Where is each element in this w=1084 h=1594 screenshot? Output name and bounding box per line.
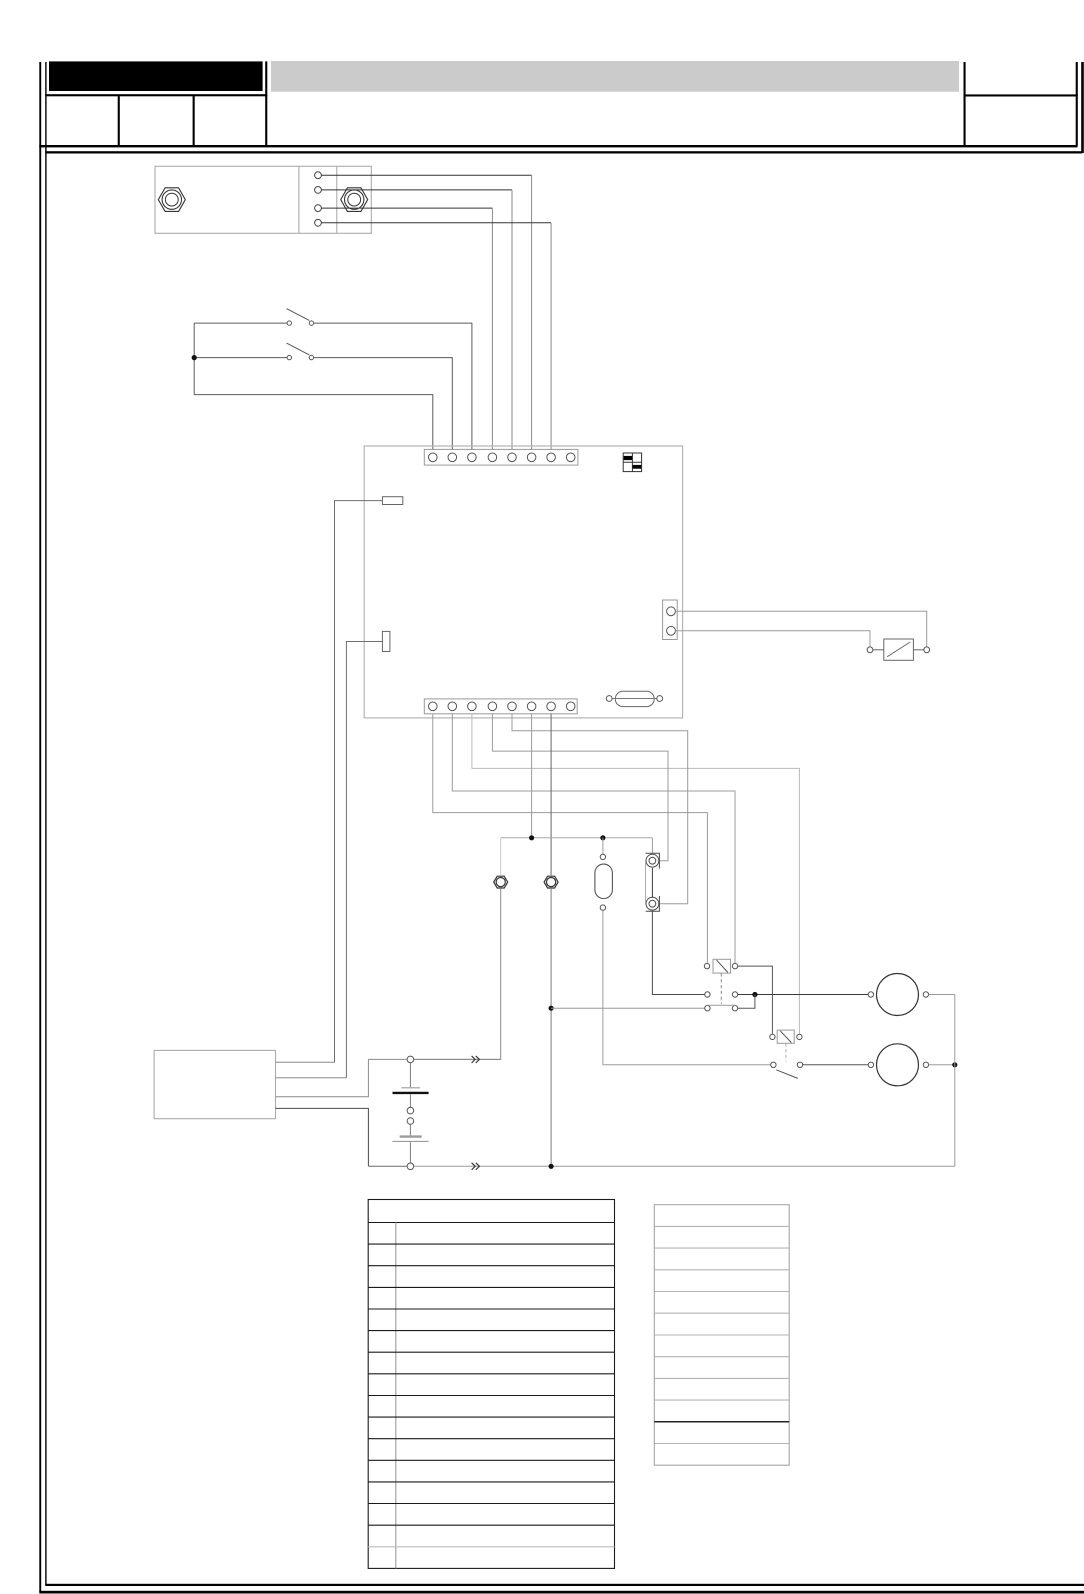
battery GB1 terminal positive — [407, 1056, 414, 1063]
K1 contact row2 right — [732, 1006, 737, 1011]
wire J1 pin1 to terminal 6 — [321, 174, 531, 176]
wire switch common vertical — [193, 323, 195, 395]
wire switch common to terminal 1 — [194, 395, 433, 450]
wire vertical to terminal 5 — [511, 190, 513, 450]
battery cell1 plate short — [393, 1092, 429, 1094]
battery cell2 link — [409, 1142, 411, 1163]
wire J2 pin A to diode right — [675, 611, 926, 647]
K1 contact row2 left — [705, 1006, 710, 1011]
wire bus to X1 — [500, 838, 502, 876]
wire to K1 contact row2 left — [551, 1007, 705, 1009]
terminal bottom 7 — [547, 702, 556, 711]
wire battery negative left — [368, 1165, 407, 1167]
wire X2 to ground rail — [550, 889, 552, 1166]
legend table right — [654, 1205, 789, 1466]
wire charger output 1 — [276, 1061, 335, 1063]
wire J2 pin B to diode left — [675, 631, 870, 647]
terminal top 7 — [547, 453, 556, 462]
DB connector on U1 bottom — [613, 691, 657, 706]
terminal top 2 — [448, 453, 457, 462]
battery mid terminal upper — [407, 1107, 414, 1114]
switch S2 — [287, 343, 314, 360]
terminal top 8 — [566, 453, 575, 462]
wire charger output 2 — [276, 1077, 347, 1079]
K1 contact row2 lever — [707, 1004, 736, 1006]
wire M1 to right drop — [929, 994, 955, 996]
battery GB1 terminal negative — [407, 1163, 414, 1170]
terminal bottom 1 — [429, 702, 438, 711]
terminal bottom 5 — [508, 702, 517, 711]
wire terminal bottom 4 to jack top — [492, 714, 668, 861]
wire S1 left — [194, 322, 287, 324]
X3 screw bottom — [600, 905, 605, 910]
K1 coil terminal left — [704, 963, 709, 968]
J1 pin 3 — [315, 205, 322, 212]
junction switch common — [192, 355, 197, 360]
ground rail — [414, 1165, 955, 1167]
wire battery positive left — [368, 1058, 407, 1060]
wire J1 pin3 to terminal 4 — [321, 207, 492, 209]
node diode left — [867, 647, 873, 653]
relay K2 coil — [777, 1030, 794, 1043]
wire battery positive right — [414, 1058, 501, 1060]
terminal strip bottom — [424, 699, 577, 714]
DB connector screw left — [606, 696, 612, 702]
wire J1 pin4 to terminal 7 — [321, 222, 551, 224]
wire terminal bottom 1 to K1 coil left — [433, 714, 708, 964]
terminal bottom 8 — [566, 702, 575, 711]
jumper icon U1 — [623, 453, 641, 472]
K1 contact row1 left — [705, 992, 710, 997]
bus wire — [501, 837, 653, 839]
connector J2 on U1 right — [663, 600, 678, 640]
battery cell1 plate long — [401, 1087, 420, 1089]
wire X4 to K1 contact row1 left — [652, 911, 704, 995]
wire S3 to motor M2 — [803, 1064, 868, 1066]
wire M2 to right drop — [929, 1064, 955, 1066]
wire right drop to ground rail — [954, 995, 956, 1167]
node diode right — [924, 647, 930, 653]
J1 pin 1 — [315, 172, 322, 179]
wire S2 left — [194, 357, 287, 359]
wire K1 row1 to motor M1 — [738, 994, 869, 996]
wire CN1 to charger — [346, 642, 382, 1078]
K2 coil terminal right — [797, 1034, 802, 1039]
junction X2 chain to K1 — [549, 1006, 554, 1011]
terminal strip top — [424, 449, 578, 465]
battery cell2 plate long — [400, 1135, 422, 1137]
connector block J1 — [155, 166, 371, 233]
wire charger output 4 — [276, 1108, 369, 1166]
terminal bottom 2 — [448, 702, 457, 711]
wire terminal bottom 7 to X2 — [550, 714, 552, 876]
wire K1 coil to K2 coil — [738, 966, 773, 1034]
terminal top 1 — [429, 453, 438, 462]
J2 pin B — [667, 626, 676, 635]
K1 contact row1 right — [732, 992, 737, 997]
J1 pin 4 — [315, 219, 322, 226]
K2 coil terminal left — [770, 1034, 775, 1039]
inline connector positive — [472, 1056, 480, 1063]
X4 body center bar — [651, 868, 653, 897]
wire X1 to battery positive — [414, 889, 501, 1060]
controller U1 — [364, 446, 682, 718]
wire bus to DB9 — [602, 838, 604, 855]
junction K1 output — [752, 992, 757, 997]
hex connector X2 — [544, 876, 558, 888]
battery mid link lower — [409, 1124, 411, 1135]
legend table left — [368, 1200, 614, 1569]
switch S3 contact left — [771, 1062, 776, 1067]
diode D1 — [873, 639, 924, 660]
charger A1 — [154, 1050, 275, 1118]
terminal bottom 4 — [488, 702, 497, 711]
wire bus to jack top — [651, 838, 653, 854]
DB connector screw right — [657, 696, 663, 702]
J2 pin A — [667, 607, 676, 616]
K1 coil terminal right — [732, 963, 737, 968]
hex connector X1 — [494, 876, 508, 888]
connector CN1 on U1 left — [382, 631, 390, 651]
M1 terminal left — [868, 992, 873, 997]
battery cell2 plate short — [393, 1140, 429, 1142]
motor M2 — [877, 1044, 919, 1086]
switch S1 — [287, 309, 314, 326]
wire J1 pin2 to terminal 5 — [321, 189, 512, 191]
wire vertical to terminal 4 — [491, 208, 493, 450]
wire charger output 3 — [276, 1059, 369, 1096]
M1 terminal right — [923, 992, 928, 997]
hex nut on J1 right — [341, 188, 368, 212]
wire vertical to terminal 7 — [550, 223, 552, 450]
motor M1 — [877, 974, 919, 1016]
battery mid link upper — [409, 1094, 411, 1107]
junction motors right — [952, 1062, 957, 1067]
junction bus-DB9 — [600, 835, 605, 840]
wire terminal bottom 5 to jack bottom — [512, 714, 688, 904]
hex nut on J1 left — [158, 188, 185, 212]
relay K1 coil — [713, 959, 731, 973]
J1 pin 2 — [315, 187, 322, 194]
X3 screw top — [600, 854, 605, 859]
jack connector X4 top — [646, 853, 660, 868]
wire K1 row2 right link — [738, 995, 755, 1009]
X4 body left bar — [645, 861, 647, 904]
M2 terminal right — [923, 1062, 928, 1067]
junction bus-terminal6 — [529, 835, 534, 840]
wire F1 to charger — [335, 501, 383, 1063]
battery mid terminal lower — [407, 1118, 414, 1125]
switch S3 lever — [776, 1070, 798, 1079]
jack connector X4 bottom — [646, 896, 660, 911]
terminal bottom 3 — [468, 702, 477, 711]
wire terminal bottom 2 to K1 coil right — [452, 714, 735, 964]
fuse F1 on U1 left — [382, 497, 402, 505]
terminal top 6 — [527, 453, 536, 462]
terminal top 4 — [488, 453, 497, 462]
wire X3 to switch S3 — [603, 910, 771, 1065]
junction ground rail X2 — [549, 1164, 554, 1169]
terminal top 5 — [508, 453, 517, 462]
inline connector negative — [472, 1163, 480, 1170]
K2 actuator dashed — [785, 1043, 787, 1062]
K1 actuator dashed — [720, 973, 722, 1003]
battery cell1 link — [409, 1063, 411, 1087]
wire S2 right to terminal 2 — [314, 358, 453, 450]
wire S1 right to terminal 3 — [314, 323, 472, 450]
terminal top 3 — [468, 453, 477, 462]
wire terminal bottom 3 to K2 coil right — [472, 714, 800, 1034]
terminal bottom 6 — [527, 702, 536, 711]
DB9 connector X3 — [595, 864, 613, 898]
M2 terminal left — [868, 1062, 873, 1067]
wire vertical to terminal 6 — [531, 175, 533, 450]
wire terminal bottom 6 to bus — [531, 714, 533, 838]
switch S3 contact right — [797, 1062, 802, 1067]
